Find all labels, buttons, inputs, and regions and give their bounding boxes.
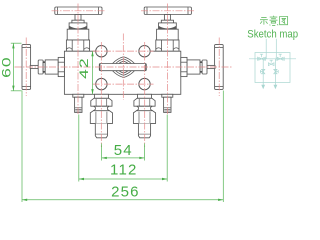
svg-text:60: 60 [0,56,14,78]
svg-text:42: 42 [78,57,92,79]
svg-text:112: 112 [110,162,138,179]
svg-text:54: 54 [114,142,133,159]
svg-text:256: 256 [111,183,140,200]
svg-text:Sketch map: Sketch map [247,29,298,41]
